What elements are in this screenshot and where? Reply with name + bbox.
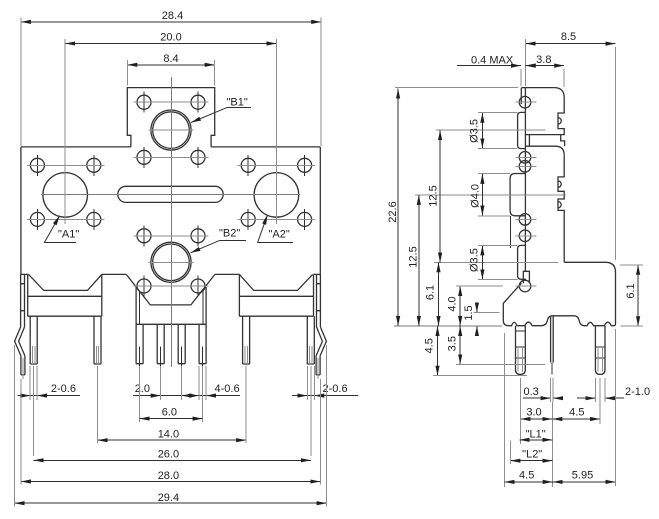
dim 3.0 [520,378,552,487]
DIMENSIONS FRONT [15,10,358,507]
dim 4.5 bottom row1 [552,378,600,424]
dim 22.6 [387,88,518,326]
center terminal block [136,287,206,324]
dim 2-0.6 right [292,366,358,456]
body lower right edge with notches [558,155,564,262]
hole A2 [254,173,299,218]
label B1 leader [191,97,251,123]
svg-text:Ø4.0: Ø4.0 [470,184,482,208]
left pin ticks [516,331,526,358]
center leg 2 [157,324,164,363]
svg-text:2-1.0: 2-1.0 [625,386,650,398]
wing leg left inner [94,316,101,364]
dim 8.5 [526,31,616,260]
center pin [551,316,554,363]
svg-text:4.5: 4.5 [424,338,436,353]
small holes [30,95,311,293]
svg-text:"A1": "A1" [58,229,79,241]
svg-text:22.6: 22.6 [387,201,399,222]
top tab outline [127,88,214,147]
A1 vertical centerline [64,166,66,224]
dim 8.4 [127,53,214,86]
svg-text:6.0: 6.0 [162,407,177,419]
right block [503,262,615,325]
small hole vertical arms [37,92,304,297]
rail hole circles [519,96,531,291]
wing leg right inner [243,316,250,364]
plate top edge right [211,146,320,148]
plate right edge [319,147,321,275]
body face line [524,88,526,272]
left wing groove [29,274,102,290]
svg-text:"L1": "L1" [526,428,546,440]
body block joint [526,135,565,156]
svg-text:"L2": "L2" [522,448,542,460]
svg-text:"B1": "B1" [227,97,248,109]
dim 6.0 [140,407,203,419]
dim 2-1.0 [577,378,650,402]
hole B2 [151,242,191,282]
left foot strip [21,274,25,327]
left foot tip [21,356,25,375]
plate left edge [20,147,22,275]
center leg 1 [136,324,143,363]
left foot bend [15,327,25,356]
right foot tip [316,356,320,375]
svg-text:5.95: 5.95 [572,469,593,481]
hole A1 [43,173,88,218]
right wing groove [239,274,312,290]
svg-text:6.1: 6.1 [625,283,637,298]
right foot bend [316,327,326,356]
dim 1.5 [463,304,500,335]
dim 28.4 [21,10,321,146]
dim 2.0 [133,366,195,400]
plate top edge left [21,146,131,148]
B2 horizontal centerline [149,261,194,263]
svg-text:"A2": "A2" [269,229,290,241]
A2 vertical centerline [275,166,277,224]
B1 horizontal centerline [149,129,194,131]
svg-text:2-0.6: 2-0.6 [51,383,76,395]
center leg 4 [199,324,206,363]
svg-text:1.5: 1.5 [463,305,475,320]
horizontal centerline A row [41,194,300,196]
dim 3.5 lower [447,326,546,364]
center dip [126,274,215,305]
svg-text:3.5: 3.5 [447,336,459,351]
dim 29.4 [15,345,327,507]
dim 12.5 upper [428,130,441,262]
dim 4.5 bottom [505,469,553,482]
right wing block [239,274,313,316]
dim L2 [505,333,553,487]
dim 6.1 left [425,262,439,326]
wing leg left outer [30,316,37,364]
left pin [516,326,526,375]
svg-text:8.5: 8.5 [561,31,576,43]
svg-text:28.4: 28.4 [162,10,183,22]
dim 4.5 left [424,326,528,376]
dim dia 4.0 [470,174,511,216]
svg-text:2.0: 2.0 [135,383,150,395]
dim 3.8 [526,54,565,87]
dim L1 [519,428,552,440]
dim 20.0 [65,31,276,172]
right foot strip [317,274,321,327]
body profile [522,88,565,135]
svg-text:4.5: 4.5 [569,406,584,418]
label A1 leader [44,216,79,243]
small hole row centerlines [27,102,315,286]
label A2 leader [258,215,294,243]
DIMENSIONS SIDE [387,31,650,487]
svg-text:20.0: 20.0 [160,31,181,43]
svg-text:4-0.6: 4-0.6 [215,383,240,395]
left wing block [28,274,102,316]
label B2 leader [191,228,247,253]
dim 12.5 lower [408,195,420,326]
svg-text:4.0: 4.0 [447,296,459,311]
hole B1 [151,110,191,150]
svg-text:3.0: 3.0 [526,406,541,418]
slot [118,186,223,202]
center block inner walls [139,291,203,324]
rail hole tick lines [516,102,537,286]
dim dia 3.5 top [469,112,518,148]
SIDE VIEW [415,88,616,375]
dim 26.0 [34,449,311,461]
svg-text:0.3: 0.3 [524,386,539,398]
foot root step [523,271,529,283]
svg-text:4.5: 4.5 [519,469,534,481]
boss B2 [518,245,526,279]
boss A [510,174,526,216]
side centerline A row [415,194,566,196]
dim 28.0 [21,379,320,485]
top tab edge [520,88,522,104]
wing leg right outer [307,316,314,364]
dim 0.3 [523,378,560,402]
svg-text:12.5: 12.5 [408,246,420,267]
svg-text:26.0: 26.0 [158,449,179,461]
dim dia 3.5 bottom [469,245,518,279]
dim 4-0.6 [140,366,240,422]
dim 2-0.6 left [18,366,80,456]
svg-text:29.4: 29.4 [158,492,179,504]
vertical centerline [171,77,173,367]
svg-text:"B2": "B2" [219,228,240,240]
svg-text:12.5: 12.5 [428,185,440,206]
svg-text:8.4: 8.4 [163,53,178,65]
dim 14.0 [98,366,247,443]
svg-text:28.0: 28.0 [158,470,179,482]
svg-text:3.8: 3.8 [536,54,551,66]
svg-text:0.4 MAX: 0.4 MAX [471,54,514,66]
dim 4.0 [447,286,504,326]
side centerline B1 row [436,129,546,131]
svg-text:Ø3.5: Ø3.5 [469,119,481,143]
right pin ticks [595,347,605,358]
dim 5.95 [553,329,616,486]
right pin [595,326,605,375]
svg-text:6.1: 6.1 [425,285,437,300]
boss B1 [518,112,526,148]
plate bottom edge segments [21,273,320,275]
side centerline B2 row [434,261,558,263]
dim 6.1 right [620,265,643,326]
center leg 3 [178,324,185,363]
svg-text:Ø3.5: Ø3.5 [469,248,481,272]
dim 0.4 MAX [457,54,533,86]
metal edge between bosses [509,216,511,248]
svg-text:14.0: 14.0 [158,428,179,440]
FRONT VIEW [15,77,327,379]
